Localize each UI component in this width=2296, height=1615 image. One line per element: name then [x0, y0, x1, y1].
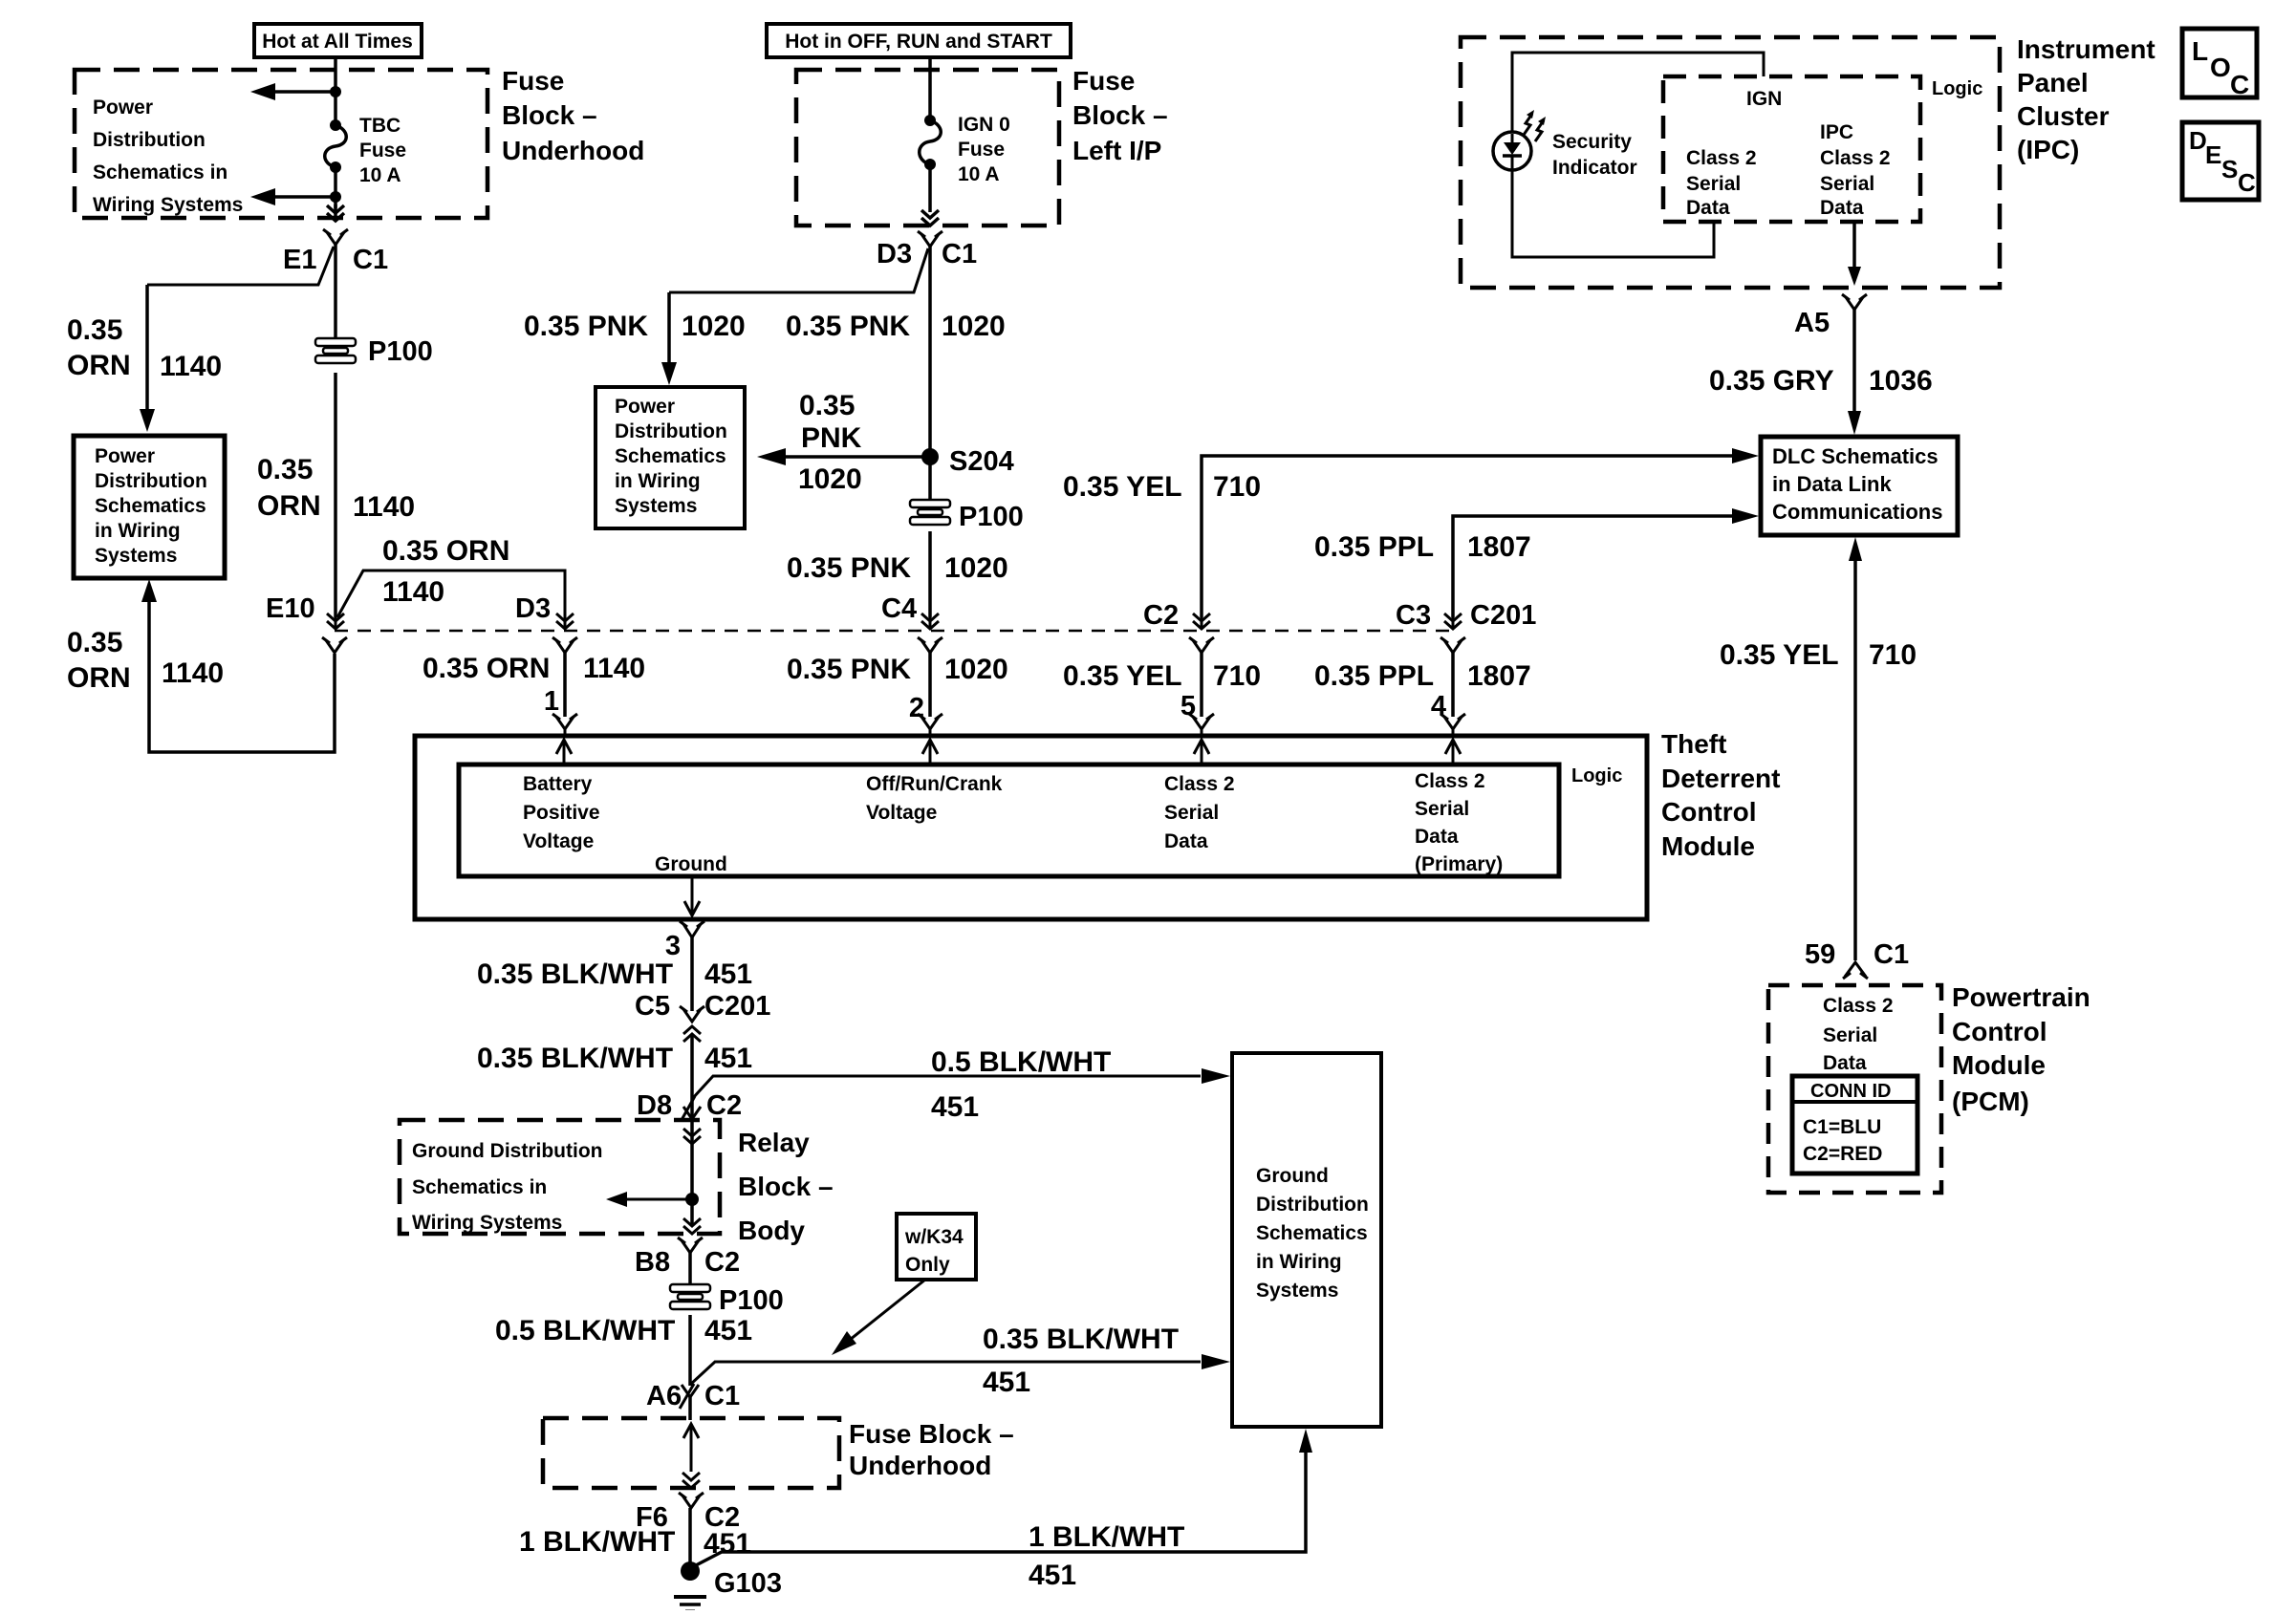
svg-text:Ground Distribution: Ground Distribution — [412, 1140, 602, 1162]
label: 0.35 GRY | 1036 — [1709, 365, 1933, 397]
svg-text:Block –: Block – — [502, 100, 597, 130]
label: Fuse Block - Left I/P title — [1072, 66, 1168, 165]
wire: 0.35 YEL 710 up to DLC — [1202, 448, 1759, 617]
svg-text:10 A: 10 A — [359, 164, 401, 186]
svg-text:Systems: Systems — [95, 545, 177, 567]
svg-text:Data: Data — [1823, 1052, 1867, 1074]
svg-text:DLC Schematics: DLC Schematics — [1772, 444, 1939, 468]
wire: B8 to P100 — [688, 1253, 692, 1286]
label: 1 BLK/WHT 451 (right) — [1029, 1521, 1184, 1591]
svg-text:G103: G103 — [714, 1568, 782, 1599]
connector C3 / C201 (in-line) — [1396, 600, 1536, 653]
DLC schematics box — [1761, 437, 1958, 535]
svg-text:B8: B8 — [635, 1247, 670, 1278]
svg-text:3: 3 — [665, 931, 681, 961]
wire: 0.35 YEL 710 from PCM up to DLC — [1849, 537, 1862, 960]
svg-text:C1: C1 — [704, 1381, 740, 1411]
svg-text:Distribution: Distribution — [1256, 1194, 1369, 1216]
inline connector P100 (middle grommet) — [908, 499, 1024, 532]
svg-text:710: 710 — [1213, 660, 1261, 692]
label: 0.5 BLK/WHT 451 (branch) — [931, 1046, 1111, 1123]
out-arrow at relay block bottom — [683, 1218, 701, 1234]
svg-text:D3: D3 — [877, 239, 912, 269]
svg-text:(IPC): (IPC) — [2017, 135, 2079, 164]
svg-text:0.35 BLK/WHT: 0.35 BLK/WHT — [477, 1043, 673, 1074]
connector: pin 2 at module — [918, 714, 942, 736]
svg-text:Block –: Block – — [738, 1172, 834, 1201]
svg-text:S: S — [2221, 155, 2238, 183]
label: 0.35 YEL | 710 (above C201) — [1063, 471, 1261, 503]
label: 0.35 BLK/WHT | 451 (pin3) — [477, 958, 752, 990]
svg-text:0.35 PPL: 0.35 PPL — [1314, 531, 1434, 563]
C201 harness in-line connector dashed line — [335, 630, 1454, 633]
svg-text:0.5 BLK/WHT: 0.5 BLK/WHT — [931, 1046, 1111, 1078]
svg-text:Fuse: Fuse — [502, 66, 564, 96]
connector C5 / C201 (in-line) — [635, 991, 770, 1042]
label: IPC Class 2 Serial Data — [1820, 121, 1891, 219]
out-arrow at fuse block bottom edge — [327, 205, 344, 221]
svg-text:451: 451 — [704, 1528, 751, 1560]
svg-text:0.35 YEL: 0.35 YEL — [1720, 639, 1839, 671]
svg-text:IGN 0: IGN 0 — [958, 114, 1010, 136]
label: 0.35 BLK/WHT | 451 (below C5) — [477, 1043, 752, 1074]
svg-text:Serial: Serial — [1164, 802, 1219, 824]
svg-text:Power: Power — [615, 396, 675, 418]
power distribution schematics box (middle) — [596, 387, 745, 528]
svg-text:10 A: 10 A — [958, 163, 1000, 185]
svg-text:Class 2: Class 2 — [1686, 147, 1757, 169]
svg-text:Fuse Block –: Fuse Block – — [849, 1419, 1014, 1449]
svg-text:Class 2: Class 2 — [1415, 770, 1485, 792]
svg-text:Serial: Serial — [1686, 173, 1741, 195]
svg-text:Security: Security — [1552, 131, 1632, 153]
svg-text:Hot at All Times: Hot at All Times — [262, 31, 413, 53]
svg-text:Underhood: Underhood — [502, 136, 644, 165]
svg-text:IPC: IPC — [1820, 121, 1853, 143]
wire: ground run C5 to relay block — [690, 1034, 694, 1122]
connector: pin 1 at module — [552, 714, 577, 736]
connector D8 / C2 — [637, 1090, 742, 1121]
connector D3 at C201 (in-line) — [515, 593, 577, 653]
wire: 0.35 BLK/WHT 451 branch (w/K34) to ground distribution box — [690, 1354, 1230, 1385]
svg-text:1020: 1020 — [682, 311, 746, 342]
svg-text:S204: S204 — [949, 446, 1014, 477]
svg-text:Fuse: Fuse — [359, 140, 406, 161]
svg-text:1020: 1020 — [944, 552, 1008, 584]
label: 0.35 BLK/WHT 451 (K34 branch) — [983, 1324, 1179, 1398]
svg-text:Deterrent: Deterrent — [1661, 764, 1780, 793]
svg-text:Voltage: Voltage — [523, 830, 594, 852]
label: 0.5 BLK/WHT | 451 — [495, 1315, 752, 1346]
svg-text:D: D — [2189, 126, 2207, 155]
svg-text:Underhood: Underhood — [849, 1451, 991, 1480]
svg-text:Relay: Relay — [738, 1128, 810, 1157]
fuse IGN 0 10A — [920, 114, 1010, 185]
svg-text:Control: Control — [1952, 1017, 2047, 1046]
label: 1 BLK/WHT | 451 — [519, 1526, 751, 1560]
label: 0.35 YEL | 710 (PCM) — [1720, 639, 1917, 671]
wire: 0.35 ORN 1140 pin 1 drop — [563, 653, 567, 717]
svg-text:451: 451 — [983, 1367, 1030, 1398]
label: 0.35 ORN | 1140 circuit (below C201) — [422, 653, 645, 684]
svg-text:Schematics: Schematics — [615, 445, 726, 467]
svg-text:Hot in OFF, RUN and START: Hot in OFF, RUN and START — [785, 31, 1052, 53]
label: 0.35 ORN | 1140 (mid left) — [257, 454, 415, 523]
label: 0.35 YEL | 710 (pin 5) — [1063, 660, 1261, 692]
connector C2 at C201 (in-line) — [1143, 600, 1214, 653]
wire: main ORN run E1 to P100 to E10 — [334, 245, 337, 339]
svg-text:C2=RED: C2=RED — [1803, 1143, 1882, 1165]
label: Power Distribution Schematics in Wiring Systems (in fuse block) — [93, 97, 243, 216]
svg-text:Cluster: Cluster — [2017, 101, 2110, 131]
svg-text:0.35 PPL: 0.35 PPL — [1314, 660, 1434, 692]
node: junction in relay block — [685, 1193, 699, 1206]
svg-text:1140: 1140 — [382, 576, 444, 608]
svg-text:C1=BLU: C1=BLU — [1803, 1116, 1881, 1138]
svg-text:in Data Link: in Data Link — [1772, 472, 1892, 496]
svg-text:Class 2: Class 2 — [1164, 773, 1235, 795]
connector F6 / C2 — [636, 1493, 740, 1533]
connector A5 — [1794, 294, 1867, 338]
svg-text:0.35 YEL: 0.35 YEL — [1063, 471, 1182, 503]
svg-text:CONN ID: CONN ID — [1810, 1081, 1891, 1102]
svg-text:Block –: Block – — [1072, 100, 1168, 130]
svg-text:Systems: Systems — [615, 495, 697, 517]
svg-text:Class 2: Class 2 — [1823, 995, 1894, 1017]
svg-text:Serial: Serial — [1415, 798, 1469, 820]
out-arrow at lower fuse block bottom — [682, 1473, 700, 1488]
svg-text:59: 59 — [1805, 939, 1835, 970]
svg-text:451: 451 — [704, 958, 752, 990]
svg-text:1140: 1140 — [353, 491, 415, 523]
label: Fuse Block - Underhood title (lower) — [849, 1419, 1014, 1480]
svg-text:E10: E10 — [266, 593, 315, 624]
svg-text:(Primary): (Primary) — [1415, 853, 1503, 875]
svg-text:C2: C2 — [706, 1090, 742, 1121]
svg-text:TBC: TBC — [359, 115, 401, 137]
CONN ID table — [1792, 1076, 1917, 1174]
svg-text:Power: Power — [95, 445, 155, 467]
svg-text:C1: C1 — [353, 245, 388, 275]
connector E1 / C1 — [283, 229, 388, 275]
wire: PNK pin 2 drop — [928, 653, 932, 717]
header box: Hot in OFF, RUN and START — [767, 24, 1071, 57]
wire: battery feed from header into fuse block — [334, 57, 337, 125]
svg-text:E: E — [2205, 140, 2221, 169]
svg-text:Class 2: Class 2 — [1820, 147, 1891, 169]
fuse block underhood lower (dashed box) — [543, 1418, 839, 1488]
svg-text:C: C — [2230, 70, 2249, 99]
svg-text:0.35 PNK: 0.35 PNK — [787, 654, 911, 685]
wire: 0.35 ORN 1140 branch from E1 to left — [140, 247, 334, 432]
label: Class 2 Serial Data (IPC left) — [1686, 147, 1757, 219]
pin arrows inside module — [556, 740, 1461, 764]
label: 0.35 PNK | 1020 (main) — [786, 311, 1006, 342]
svg-text:0.35: 0.35 — [67, 627, 122, 658]
label: Fuse Block - Underhood title — [502, 66, 644, 165]
svg-text:1807: 1807 — [1467, 660, 1531, 692]
svg-text:C201: C201 — [704, 991, 770, 1022]
connector: pin 4 at module — [1440, 714, 1465, 736]
svg-text:Positive: Positive — [523, 802, 600, 824]
svg-text:A5: A5 — [1794, 308, 1830, 338]
svg-text:w/K34: w/K34 — [904, 1226, 964, 1248]
svg-text:Data: Data — [1686, 197, 1730, 219]
wire: YEL pin 5 drop — [1200, 653, 1203, 717]
svg-text:Panel: Panel — [2017, 68, 2089, 97]
fuse TBC 10A — [325, 115, 406, 186]
svg-text:Voltage: Voltage — [866, 802, 937, 824]
relay block body (dashed box) — [400, 1120, 720, 1234]
wire: 0.35 ORN jog from E10 to D3 — [337, 535, 565, 617]
wire: arrow to ground distribution text — [606, 1192, 692, 1207]
wire: 0.35 ORN 1140 return branch into box bottom — [141, 579, 335, 752]
svg-text:Data: Data — [1415, 826, 1459, 848]
inline connector P100 (left grommet) — [314, 336, 433, 367]
wire: fuse output — [928, 164, 932, 212]
svg-text:C3: C3 — [1396, 600, 1431, 631]
label: 0.35 PNK | 1020 (pin 2) — [787, 654, 1008, 685]
svg-text:Off/Run/Crank: Off/Run/Crank — [866, 773, 1003, 795]
svg-text:1140: 1140 — [583, 653, 645, 684]
connector A6 / C1 — [646, 1381, 740, 1411]
svg-text:Communications: Communications — [1772, 500, 1942, 524]
wire: PPL pin 4 drop — [1451, 653, 1455, 717]
svg-text:Battery: Battery — [523, 773, 593, 795]
svg-text:Distribution: Distribution — [615, 420, 727, 442]
svg-text:ORN: ORN — [67, 662, 131, 694]
svg-text:Distribution: Distribution — [95, 470, 207, 492]
connector D3 / C1 — [877, 231, 977, 269]
svg-text:PNK: PNK — [801, 422, 862, 454]
label: 0.35 ORN 1140 (upper left) — [67, 314, 222, 382]
IPC logic box (inner dashed) — [1663, 76, 1920, 222]
svg-text:Module: Module — [1952, 1050, 2046, 1080]
svg-text:Powertrain: Powertrain — [1952, 982, 2090, 1012]
svg-text:Control: Control — [1661, 797, 1757, 827]
svg-text:Indicator: Indicator — [1552, 157, 1637, 179]
svg-text:Left I/P: Left I/P — [1072, 136, 1161, 165]
node: splice S204 — [921, 446, 1014, 477]
svg-text:Schematics: Schematics — [95, 495, 206, 517]
svg-text:C5: C5 — [635, 991, 670, 1022]
svg-text:C2: C2 — [1143, 600, 1179, 631]
svg-text:0.35 PNK: 0.35 PNK — [786, 311, 910, 342]
label: Battery Positive Voltage — [523, 773, 600, 852]
label: Instrument Panel Cluster (IPC) title — [2017, 34, 2155, 164]
connector 59 / C1 (PCM) — [1805, 939, 1909, 979]
svg-text:1140: 1140 — [162, 657, 224, 689]
svg-text:1036: 1036 — [1869, 365, 1933, 397]
svg-text:Distribution: Distribution — [93, 129, 206, 151]
svg-text:Schematics in: Schematics in — [93, 161, 227, 183]
svg-text:0.35 PNK: 0.35 PNK — [524, 311, 648, 342]
connector: pin 5 at module — [1189, 714, 1214, 736]
svg-text:0.35 BLK/WHT: 0.35 BLK/WHT — [477, 958, 673, 990]
label: Powertrain Control Module (PCM) title — [1952, 982, 2090, 1116]
svg-text:Theft: Theft — [1661, 729, 1726, 759]
svg-text:P100: P100 — [719, 1285, 784, 1316]
connector: pin 3 below module — [680, 921, 704, 937]
svg-text:710: 710 — [1213, 471, 1261, 503]
power distribution schematics box (left) — [74, 436, 225, 578]
svg-text:1140: 1140 — [160, 351, 222, 382]
in-arrow at lower fuse block top — [683, 1424, 699, 1472]
svg-text:0.35 BLK/WHT: 0.35 BLK/WHT — [983, 1324, 1179, 1355]
wire: 0.5 BLK/WHT 451 branch to ground distribution box — [692, 1068, 1230, 1099]
DESC legend box — [2182, 122, 2259, 200]
svg-text:A6: A6 — [646, 1381, 682, 1411]
wire: w/K34 pointer arrow — [832, 1280, 925, 1355]
fuse block left I/P (dashed box) — [796, 70, 1059, 226]
svg-text:in Wiring: in Wiring — [1256, 1251, 1342, 1273]
option box: w/K34 Only — [897, 1214, 976, 1280]
wire: security indicator to logic box — [1512, 168, 1714, 257]
wire: fuse output — [334, 167, 337, 208]
svg-text:Ground: Ground — [1256, 1165, 1329, 1187]
svg-text:C1: C1 — [942, 239, 977, 269]
wire: IGN feed inside IPC — [1512, 53, 1764, 132]
svg-text:in Wiring: in Wiring — [95, 520, 181, 542]
svg-text:P100: P100 — [959, 502, 1024, 532]
svg-text:Fuse: Fuse — [958, 139, 1005, 161]
svg-text:Instrument: Instrument — [2017, 34, 2155, 64]
wire: 1 BLK/WHT 451 run to ground distribution box — [696, 1429, 1312, 1565]
svg-text:ORN: ORN — [67, 350, 131, 381]
node: junction dot upper — [330, 86, 341, 97]
svg-text:1 BLK/WHT: 1 BLK/WHT — [519, 1526, 675, 1558]
svg-text:C201: C201 — [1470, 600, 1536, 631]
LOC legend box — [2182, 29, 2257, 99]
svg-text:O: O — [2210, 53, 2231, 82]
svg-text:C2: C2 — [704, 1247, 740, 1278]
label: Class 2 Serial Data (Primary) — [1415, 770, 1503, 875]
header box: Hot at All Times — [254, 24, 422, 57]
svg-text:E1: E1 — [283, 245, 316, 275]
svg-text:Data: Data — [1164, 830, 1208, 852]
svg-text:0.35 PNK: 0.35 PNK — [787, 552, 911, 584]
wire: arrow to power distribution text (upper) — [250, 83, 336, 100]
wire: 0.35 PPL 1807 up to DLC — [1453, 508, 1759, 617]
svg-text:C1: C1 — [1874, 939, 1909, 970]
out-arrow at fuse block bottom edge — [921, 210, 939, 226]
connector C4 at C201 (in-line) — [881, 593, 942, 653]
svg-text:451: 451 — [704, 1043, 752, 1074]
connector E10 at C201 — [266, 593, 347, 653]
svg-text:IGN: IGN — [1746, 88, 1782, 110]
inline connector P100 (lower grommet) — [668, 1283, 784, 1316]
in-arrow at relay block top — [683, 1129, 701, 1144]
svg-text:Wiring Systems: Wiring Systems — [93, 194, 243, 216]
svg-text:Data: Data — [1820, 197, 1864, 219]
ground distribution schematics box (right) — [1232, 1053, 1381, 1427]
svg-text:Only: Only — [905, 1254, 950, 1276]
svg-text:Body: Body — [738, 1216, 805, 1245]
svg-text:0.5 BLK/WHT: 0.5 BLK/WHT — [495, 1315, 675, 1346]
wire: P100 to A6 — [688, 1315, 692, 1386]
svg-text:0.35: 0.35 — [799, 390, 855, 421]
powertrain control module (dashed box) — [1768, 985, 1941, 1193]
ground G103 — [674, 1561, 782, 1611]
wire: main PNK run D3 to S204 to P100 to C4 — [928, 247, 932, 501]
svg-text:Ground: Ground — [655, 853, 727, 875]
svg-text:Module: Module — [1661, 831, 1755, 861]
svg-text:Logic: Logic — [1571, 765, 1622, 786]
label: Relay Block - Body title — [738, 1128, 834, 1245]
svg-text:1: 1 — [544, 686, 559, 717]
svg-text:Serial: Serial — [1820, 173, 1874, 195]
svg-text:1807: 1807 — [1467, 531, 1531, 563]
svg-text:0.35 ORN: 0.35 ORN — [382, 535, 509, 567]
svg-text:1020: 1020 — [798, 463, 862, 495]
label: 0.35 ORN 1140 (lower left) — [67, 627, 224, 694]
wire: IPC serial data output arrow — [1848, 222, 1861, 286]
svg-text:0.35 GRY: 0.35 GRY — [1709, 365, 1834, 397]
svg-text:Fuse: Fuse — [1072, 66, 1135, 96]
svg-text:0.35: 0.35 — [67, 314, 122, 346]
svg-text:451: 451 — [1029, 1560, 1076, 1591]
fuse block underhood (dashed box) — [75, 70, 487, 218]
svg-text:451: 451 — [704, 1315, 752, 1346]
svg-text:Serial: Serial — [1823, 1024, 1877, 1046]
svg-text:710: 710 — [1869, 639, 1917, 671]
label: Class 2 Serial Data — [1164, 773, 1235, 852]
svg-text:0.35 ORN: 0.35 ORN — [422, 653, 550, 684]
svg-text:451: 451 — [931, 1091, 979, 1123]
svg-text:Power: Power — [93, 97, 153, 118]
wire: 0.35 GRY 1036 down to DLC — [1848, 310, 1861, 435]
svg-text:Wiring Systems: Wiring Systems — [412, 1212, 562, 1234]
svg-text:D8: D8 — [637, 1090, 672, 1121]
label: 0.35 PNK | 1020 (branch) — [524, 311, 746, 342]
label: 0.35 PNK | 1020 (below P100) — [787, 552, 1008, 584]
svg-text:Logic: Logic — [1932, 78, 1982, 99]
svg-text:(PCM): (PCM) — [1952, 1087, 2029, 1116]
label: 0.35 PPL | 1807 (above C201) — [1314, 531, 1531, 563]
wire: ground drop pin3 to C5 — [690, 937, 694, 1011]
wire: F6 to G103 — [688, 1508, 692, 1567]
label: Ground Distribution Schematics in Wiring Systems (relay block) — [412, 1140, 602, 1234]
svg-text:Systems: Systems — [1256, 1280, 1338, 1302]
svg-text:in Wiring: in Wiring — [615, 470, 701, 492]
instrument panel cluster (dashed box) — [1461, 37, 2000, 288]
wire: 0.35 PNK 1020 branch to power distribution — [661, 248, 928, 385]
wire: ignition feed into fuse block — [928, 57, 932, 120]
node: junction dot lower — [330, 191, 341, 203]
svg-text:1020: 1020 — [944, 654, 1008, 685]
connector B8 / C2 — [635, 1238, 740, 1278]
wire: arrow to power distribution text (lower) — [250, 188, 336, 205]
svg-text:1 BLK/WHT: 1 BLK/WHT — [1029, 1521, 1184, 1553]
svg-text:C: C — [2238, 168, 2256, 197]
label: 0.35 PNK 1020 (stacked at S204) — [798, 390, 862, 495]
svg-text:0.35: 0.35 — [257, 454, 313, 485]
theft deterrent control module logic box (inner) — [459, 764, 1559, 876]
svg-text:Schematics in: Schematics in — [412, 1176, 547, 1198]
svg-text:P100: P100 — [368, 336, 433, 367]
wire: ground through relay block — [690, 1122, 694, 1226]
wire: arrow from S204 to power distribution box — [757, 448, 930, 465]
svg-text:ORN: ORN — [257, 490, 321, 522]
label: Off/Run/Crank Voltage — [866, 773, 1003, 824]
label: 0.35 PPL | 1807 (pin 4) — [1314, 660, 1531, 692]
wire: ground arrow out of logic box — [684, 876, 700, 915]
svg-text:0.35 YEL: 0.35 YEL — [1063, 660, 1182, 692]
svg-text:Schematics: Schematics — [1256, 1222, 1368, 1244]
svg-text:D3: D3 — [515, 593, 551, 624]
label: Theft Deterrent Control Module title — [1661, 729, 1780, 861]
svg-text:1020: 1020 — [942, 311, 1006, 342]
